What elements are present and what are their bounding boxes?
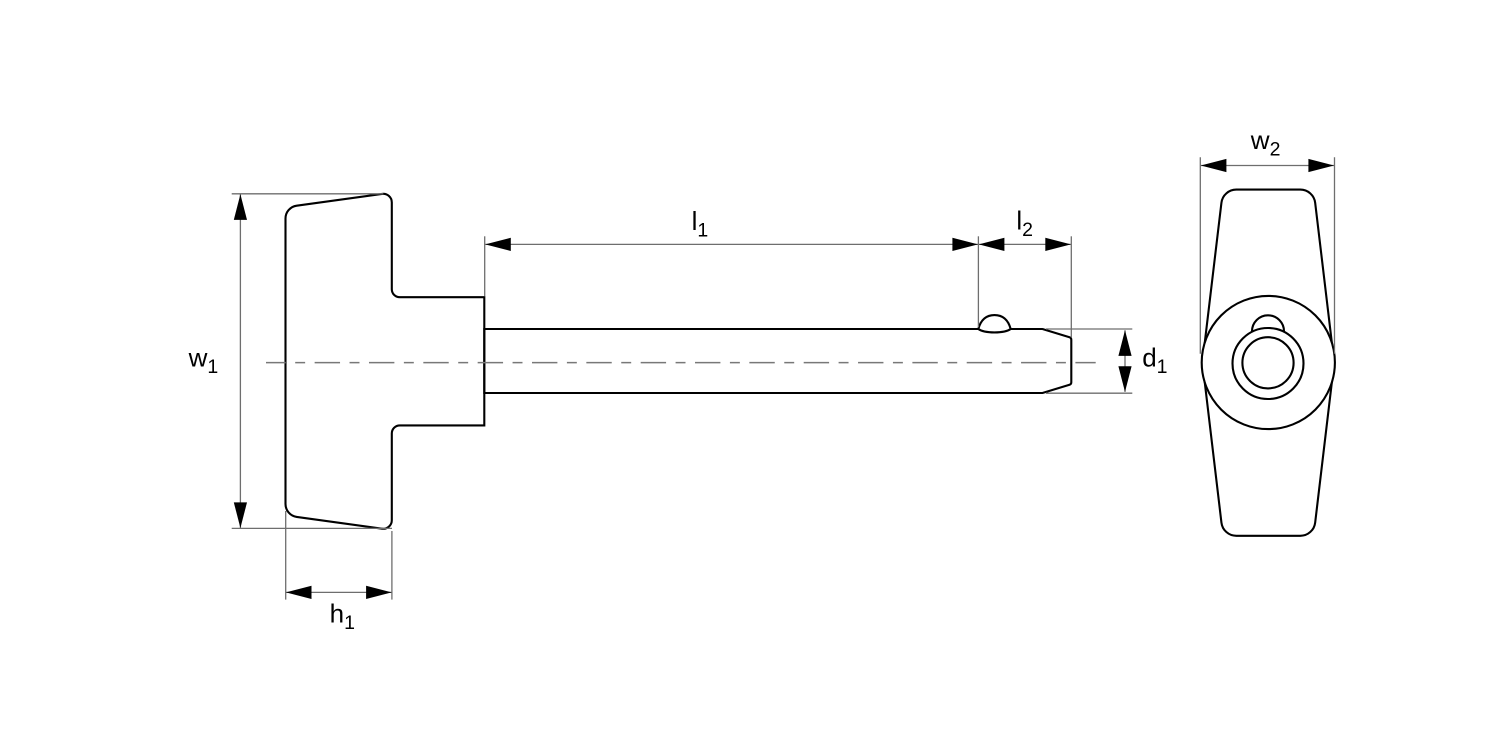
w2 extension line right	[1334, 157, 1336, 353]
l1 arrow left	[485, 238, 511, 251]
w1 arrow down	[234, 502, 247, 528]
w2 arrow left	[1201, 159, 1227, 172]
l1 extension line right	[977, 236, 979, 327]
T-handle grip (side view)	[286, 194, 485, 529]
hub boss circle (front view)	[1202, 296, 1335, 429]
shaft hole (front view)	[1242, 337, 1293, 388]
h1 extension line right	[391, 531, 393, 600]
l2 arrow right	[1045, 238, 1071, 251]
d1 extension line top	[1046, 328, 1132, 330]
center line	[266, 362, 1096, 364]
locking ball (side view)	[978, 315, 1010, 332]
h1 extension line left	[285, 511, 287, 600]
l1 dimension line	[485, 243, 978, 245]
d1 dimension line	[1124, 330, 1126, 392]
locking ball bump (front view)	[1252, 315, 1284, 347]
w1 arrow up	[234, 194, 247, 220]
collar ring (front view)	[1233, 328, 1304, 399]
w2 arrow right	[1308, 159, 1334, 172]
l2 extension line right	[1070, 236, 1072, 337]
w1 extension line bottom	[232, 527, 392, 529]
d1 arrow up	[1118, 330, 1131, 356]
d1 extension line bottom	[1046, 392, 1132, 394]
h1 arrow right	[366, 586, 392, 599]
w1 dimension line	[239, 194, 241, 528]
w1 extension line top	[232, 193, 384, 195]
T-handle wing outline (front view)	[1203, 190, 1334, 536]
d1 arrow down	[1118, 366, 1131, 392]
l1 arrow right	[952, 238, 978, 251]
h1 dimension line	[286, 591, 392, 593]
h1 arrow left	[286, 586, 312, 599]
pin shaft with chamfered tip (side view)	[484, 329, 1071, 393]
l2 dimension line	[979, 243, 1071, 245]
w2 extension line left	[1199, 157, 1201, 353]
l2 arrow left	[979, 238, 1005, 251]
w2 dimension line	[1201, 165, 1334, 167]
l1 extension line left	[484, 236, 486, 296]
